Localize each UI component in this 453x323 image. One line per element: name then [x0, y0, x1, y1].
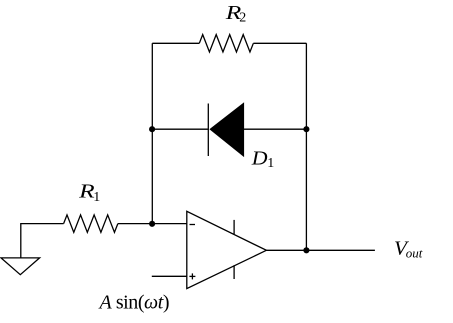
node dot junction diode-right	[303, 126, 309, 132]
wire right vertical	[305, 43, 307, 250]
svg-text:D: D	[251, 148, 268, 170]
ground	[1, 258, 40, 275]
wire noninverting input	[152, 275, 187, 277]
wire left vertical feedback	[151, 43, 153, 223]
wire R1 to inverting input	[118, 223, 187, 225]
wire output	[266, 249, 375, 251]
wire ground to R1	[21, 224, 64, 258]
op-amp minus sign	[190, 224, 196, 226]
svg-text:A sin(ωt): A sin(ωt)	[98, 291, 170, 313]
op-amp plus sign	[189, 275, 195, 277]
node dot inverting input	[149, 221, 155, 227]
wire diode left	[152, 128, 208, 130]
node dot output	[303, 247, 309, 253]
resistor R2	[199, 35, 253, 52]
svg-text:1: 1	[93, 190, 100, 205]
op-amp positive supply stub	[233, 220, 235, 234]
op-amp negative supply stub	[233, 265, 235, 279]
wire top left	[152, 42, 199, 44]
label R1	[78, 181, 100, 205]
wire top right	[253, 42, 306, 44]
diode D1	[208, 102, 244, 157]
svg-text:1: 1	[267, 156, 274, 171]
label R2	[225, 2, 247, 25]
svg-text:out: out	[406, 246, 423, 261]
svg-text:R: R	[78, 181, 95, 203]
node dot junction diode-left	[149, 126, 155, 132]
op-amp U1	[187, 211, 267, 288]
label D1	[251, 148, 275, 172]
label Vout	[394, 238, 423, 261]
resistor R1	[64, 215, 118, 232]
svg-text:2: 2	[239, 10, 246, 25]
wire diode right	[244, 128, 306, 130]
